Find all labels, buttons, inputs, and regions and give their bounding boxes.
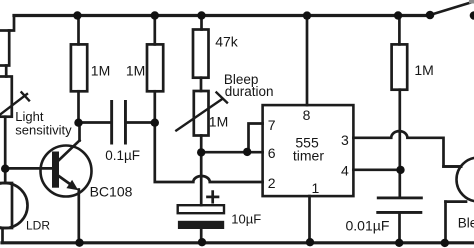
svg-text:7: 7 — [268, 117, 276, 133]
svg-text:4: 4 — [341, 163, 349, 179]
svg-text:47k: 47k — [215, 34, 239, 50]
svg-text:BC108: BC108 — [90, 184, 133, 200]
svg-text:1M: 1M — [91, 63, 110, 79]
svg-text:3: 3 — [341, 132, 349, 148]
svg-text:1M: 1M — [126, 63, 145, 79]
svg-text:1M: 1M — [209, 114, 228, 130]
svg-text:sensitivity: sensitivity — [15, 122, 72, 137]
svg-text:0.1µF: 0.1µF — [105, 148, 140, 163]
svg-text:8: 8 — [303, 107, 311, 123]
svg-text:LDR: LDR — [26, 218, 50, 232]
svg-text:1: 1 — [312, 180, 320, 196]
svg-text:Bleeper: Bleeper — [458, 216, 474, 231]
svg-text:2: 2 — [268, 175, 276, 191]
svg-text:timer: timer — [293, 147, 324, 163]
svg-text:duration: duration — [225, 84, 274, 99]
svg-text:0.01µF: 0.01µF — [346, 217, 390, 233]
svg-text:10µF: 10µF — [231, 211, 261, 226]
svg-text:1M: 1M — [414, 62, 433, 78]
svg-text:6: 6 — [268, 145, 276, 161]
